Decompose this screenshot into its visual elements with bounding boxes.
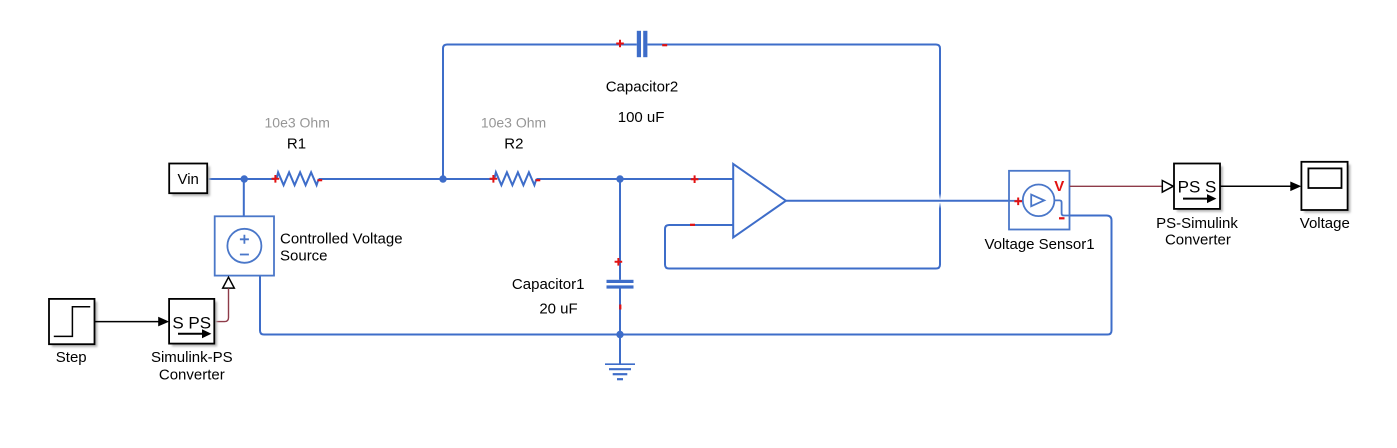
capacitor Capacitor2 - marker — [662, 44, 667, 46]
resistor R1 - marker — [318, 179, 323, 181]
op-amp — [733, 164, 786, 238]
wire: op-amp output to Voltage Sensor1 — [786, 200, 1009, 202]
svg-text:PS-Simulink: PS-Simulink — [1156, 215, 1238, 232]
svg-text:Simulink-PS: Simulink-PS — [151, 349, 233, 366]
controlled voltage source - symbol — [240, 254, 249, 256]
hollow arrowhead into PS-Simulink Converter — [1162, 181, 1173, 193]
svg-text:Voltage: Voltage — [1300, 215, 1350, 232]
CVS physical-signal input port triangle — [223, 277, 235, 288]
capacitor Capacitor1 + marker — [615, 258, 623, 266]
resistor R2 — [494, 172, 536, 185]
voltage sensor internal + wire — [1009, 200, 1023, 202]
svg-text:Capacitor1: Capacitor1 — [512, 276, 585, 293]
wire: physical signal Simulink-PS Converter to CVS (dark red) — [214, 288, 228, 321]
voltage sensor Voltage Sensor1 box — [1009, 171, 1070, 230]
svg-text:R1: R1 — [287, 136, 306, 153]
node Vin junction dot — [241, 175, 248, 182]
svg-text:Step: Step — [56, 349, 87, 366]
svg-text:20 uF: 20 uF — [539, 301, 577, 318]
node B junction dot — [616, 175, 623, 182]
node A junction dot — [439, 175, 446, 182]
svg-text:Converter: Converter — [159, 367, 225, 384]
voltage sensor triangle icon — [1031, 195, 1044, 207]
wire: Step to Simulink-PS Converter — [95, 321, 160, 323]
svg-text:Vin: Vin — [177, 171, 198, 188]
wire: ground stub — [619, 335, 621, 364]
voltage sensor circle — [1023, 185, 1055, 217]
op-amp - marker — [690, 224, 695, 226]
block shadow: Simulink-PS Converter — [172, 302, 217, 347]
wire: main horizontal net Vin to op-amp + input — [208, 178, 734, 180]
block shadow: Voltage scope — [1304, 165, 1350, 213]
capacitor Capacitor2 + marker — [616, 40, 624, 48]
resistor R1 + marker — [272, 175, 280, 183]
voltage sensor - marker — [1059, 217, 1065, 219]
step icon — [54, 307, 90, 337]
block Voltage scope — [1301, 162, 1347, 210]
block Vin — [169, 164, 207, 194]
svg-text:100 uF: 100 uF — [618, 109, 665, 126]
resistor R2 + marker — [490, 175, 498, 183]
resistor R2 - marker — [536, 179, 541, 181]
controlled voltage source + symbol — [240, 235, 249, 244]
node ground rail junction dot — [616, 331, 623, 338]
capacitor Capacitor1 - marker — [619, 305, 621, 310]
svg-text:Source: Source — [280, 247, 328, 264]
svg-text:S PS: S PS — [172, 314, 211, 333]
wire: crossover fade stubs at output crossing — [939, 194, 941, 200]
block PS-Simulink Converter — [1174, 164, 1220, 209]
block Step — [49, 299, 95, 344]
capacitor Capacitor2 plates — [637, 31, 641, 57]
converter arrow icon — [1183, 198, 1208, 200]
svg-text:R2: R2 — [504, 136, 523, 153]
wire: top rail right of Capacitor2 — [647, 45, 940, 194]
svg-text:Voltage Sensor1: Voltage Sensor1 — [984, 236, 1094, 253]
resistor R1 — [277, 172, 319, 185]
wire: bottom rail from CVS - port to Voltage Sensor1 - port — [260, 216, 1112, 335]
wire: node A up, top rail through Capacitor2, down right side — [443, 45, 637, 180]
voltage sensor internal - wire — [1054, 200, 1069, 215]
controlled voltage source block box — [215, 216, 274, 275]
wire: Vin node down to Controlled Voltage Source top port — [243, 179, 245, 217]
wire: physical signal Voltage Sensor1 to PS-Simulink Converter (dark red) — [1070, 185, 1163, 187]
svg-text:Capacitor2: Capacitor2 — [606, 78, 679, 95]
block shadow: PS-Simulink Converter — [1177, 166, 1223, 211]
svg-text:Controlled Voltage: Controlled Voltage — [280, 231, 403, 248]
arrowhead into Voltage scope — [1290, 182, 1301, 192]
svg-text:PS S: PS S — [1178, 178, 1217, 197]
wire: Capacitor1 bottom plate to bottom rail — [619, 288, 621, 334]
block shadow: Step — [52, 302, 98, 347]
ground — [605, 364, 635, 379]
svg-text:10e3 Ohm: 10e3 Ohm — [481, 115, 546, 131]
wire: node B down to Capacitor1 top plate — [619, 179, 621, 280]
scope screen icon — [1308, 168, 1341, 188]
svg-text:10e3 Ohm: 10e3 Ohm — [265, 115, 330, 131]
capacitor Capacitor1 plates — [607, 280, 634, 283]
block shadow: Vin — [172, 166, 210, 196]
block Simulink-PS Converter — [169, 299, 214, 344]
op-amp + marker — [691, 175, 699, 183]
wire: right vertical below crossing into feedback loop to op-amp - input — [665, 209, 940, 269]
converter arrow icon — [178, 333, 203, 335]
controlled voltage source circle — [227, 229, 261, 263]
wire: PS-Simulink Converter to Voltage scope — [1220, 185, 1291, 187]
svg-text:V: V — [1054, 178, 1064, 195]
arrowhead into Simulink-PS Converter — [158, 317, 169, 327]
svg-text:Converter: Converter — [1165, 231, 1231, 248]
voltage sensor + marker — [1014, 198, 1022, 206]
